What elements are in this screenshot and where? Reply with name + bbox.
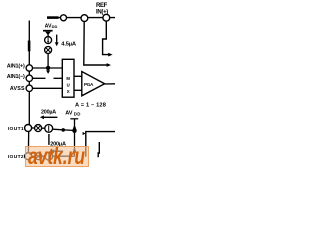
svg-text:avtk.ru: avtk.ru bbox=[28, 143, 85, 167]
